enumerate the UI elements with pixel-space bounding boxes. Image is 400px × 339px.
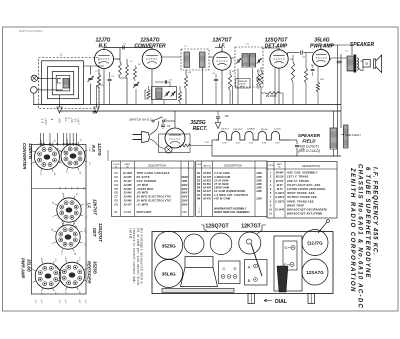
resistor R2 grid leak [134,66,137,80]
wire V1 plate [114,58,121,60]
wire T2 to V3 grid [209,56,213,58]
svg-text:R6: R6 [197,189,201,193]
svg-text:+90: +90 [53,172,55,175]
svg-text:C3: C3 [114,179,118,183]
IF transformer T3 shield box [235,47,263,87]
tuning capacitor C1 ant section [90,66,92,75]
svg-text:RADIO TRIM COIL ASSEMBLY: RADIO TRIM COIL ASSEMBLY [214,211,250,214]
svg-text:400V: 400V [181,192,188,195]
svg-text:OUTPUT TRANS ASS.: OUTPUT TRANS ASS. [287,195,318,199]
svg-text:12SQ7GT: 12SQ7GT [98,223,103,242]
svg-text:6 TUBE SUPERHETERODYNE: 6 TUBE SUPERHETERODYNE [364,167,370,279]
socket diagram V2 12SA7G [35,145,60,170]
svg-text:.05 MFD: .05 MFD [137,191,149,195]
dial cord line [251,244,262,277]
svg-text:200M: 200M [180,176,188,179]
svg-text:22-625: 22-625 [123,176,132,179]
oscillator padder trimmer 2 [171,92,176,97]
svg-text:-8: -8 [50,118,53,121]
svg-text:95-516: 95-516 [276,176,284,179]
svg-text:-1.5: -1.5 [41,118,44,124]
wire table corner leader [107,150,109,161]
svg-text:12J7G: 12J7G [274,129,281,131]
svg-text:S-11971: S-11971 [275,192,285,195]
svg-text:0: 0 [30,282,32,283]
svg-text:22-946: 22-946 [123,196,132,199]
svg-text:+90: +90 [78,290,80,293]
svg-text:250V: 250V [181,203,188,206]
loop antenna L1 shield (dashed) [39,58,100,109]
svg-text:DESCRIPTION: DESCRIPTION [302,164,320,168]
svg-text:AC: AC [64,118,67,122]
svg-text:95-994: 95-994 [276,172,284,175]
svg-text:+100: +100 [83,228,85,232]
svg-text:.00025 MFD: .00025 MFD [137,187,154,191]
svg-text:12K7GT: 12K7GT [241,224,261,230]
svg-text:12SQ7GT: 12SQ7GT [205,224,229,230]
svg-text:PWR AMP: PWR AMP [310,44,335,50]
svg-text:22-417: 22-417 [123,203,132,206]
svg-text:(AND CHAS.): (AND CHAS.) [345,133,361,137]
svg-text:+92: +92 [70,118,73,124]
diode load components [257,74,260,86]
resistor R4 screen [228,74,231,90]
chassis tube 12SQ7GT location [210,233,232,255]
svg-text:22 OHM WIREWOUND: 22 OHM WIREWOUND [213,189,245,193]
svg-text:C2: C2 [114,175,118,179]
svg-text:6.8V: 6.8V [182,212,187,214]
svg-text:46-97: 46-97 [275,184,283,187]
IF transformer T3 secondary [249,54,255,68]
svg-text:1/2W: 1/2W [256,183,262,186]
svg-text:63-447: 63-447 [203,190,211,193]
svg-text:63-561: 63-561 [203,183,211,186]
IF transformer T2 shield box [181,49,209,70]
svg-text:-1.5: -1.5 [83,242,85,245]
svg-text:400V: 400V [181,184,188,187]
svg-text:C8: C8 [114,199,118,203]
svg-text:PILOT LIGHT SOC. ASS.: PILOT LIGHT SOC. ASS. [287,183,321,187]
svg-text:+100: +100 [88,147,90,151]
svg-text:95-517: 95-517 [276,180,284,183]
capacitor C11 line bypass [216,116,220,118]
svg-text:0: 0 [29,163,31,164]
svg-text:1.4 MEG VOL CONTROL: 1.4 MEG VOL CONTROL [214,193,249,197]
wires output transformer [331,57,348,59]
svg-text:+100: +100 [84,201,86,205]
svg-text:FILTER CHOKE (SPEAKER): FILTER CHOKE (SPEAKER) [287,187,326,191]
parts table panel 2 header [196,167,268,169]
parts table panel 3 frame [267,162,337,219]
svg-text:30 MFD ELECTROLYTIC: 30 MFD ELECTROLYTIC [137,199,172,203]
svg-text:cated.: cated. [128,228,132,240]
svg-text:0: 0 [67,118,70,120]
rectifier shield outline [159,134,191,153]
resistor R6 grid [304,68,307,83]
svg-text:+117: +117 [39,172,41,176]
wire V2 plate to T2 [162,56,181,58]
resistor R5 plate load [291,62,294,82]
svg-text:FIELD: FIELD [302,139,316,144]
svg-text:A: A [248,265,251,270]
parts table panel 1 columns [120,161,122,217]
svg-text:+90: +90 [74,252,76,255]
svg-text:S-11972: S-11972 [275,196,285,199]
svg-text:INPUT TRANS. ASS.: INPUT TRANS. ASS. [287,191,315,195]
svg-text:D: D [234,266,237,271]
terminal B [31,87,38,94]
output transformer T5 primary [347,56,354,71]
wire terminal B to bus [33,93,35,104]
filament string resistor humps [216,131,290,140]
coil L2 RF choke [119,62,122,78]
svg-text:CB: CB [365,63,369,65]
svg-text:OSC PADDER: OSC PADDER [137,179,157,183]
svg-text:C6: C6 [114,191,118,195]
svg-text:TWO GANG VARIABLE: TWO GANG VARIABLE [137,171,170,175]
resistor R8 diode load [266,92,280,95]
svg-text:C: C [223,266,226,271]
capacitor cathode bypass V5 [311,68,315,70]
svg-text:CODE: CODE [268,165,274,167]
output transformer T5 secondary [357,58,359,61]
svg-text:ZENITH 6A10 SERIES: ZENITH 6A10 SERIES [19,30,43,33]
capacitor near ground arrow [93,111,96,113]
capacitor C8 coupling [300,50,302,54]
svg-text:35Z5G: 35Z5G [93,261,98,275]
wire osc to bus [163,100,165,105]
parts table panel 2 columns [201,161,203,217]
svg-text:-1.5: -1.5 [88,161,90,164]
svg-text:R5: R5 [197,186,201,190]
ground antenna trimmer [96,103,98,107]
svg-text:-1.5: -1.5 [64,281,66,284]
socket diagram V3 12K7GT [57,198,81,222]
svg-text:0: 0 [54,281,56,282]
svg-text:ADJ.: ADJ. [240,85,245,88]
oscillator transformer T1 box [152,87,177,100]
wire V4 cathode to bus [278,68,280,104]
svg-text:+85: +85 [39,139,41,142]
svg-text:63-470: 63-470 [203,197,211,200]
speaker mounting strip [162,289,234,293]
wire filament string to C9 [290,139,297,141]
svg-text:R9 610M: R9 610M [266,94,277,98]
wire V1 grid cap to converter [104,47,152,49]
speaker top view [185,257,213,268]
svg-text:1/2W: 1/2W [256,197,262,200]
svg-text:49-72: 49-72 [275,188,283,191]
svg-text:R8: R8 [197,196,201,200]
svg-text:47 M OHM: 47 M OHM [213,182,229,186]
coil L3 RF secondary [126,64,129,78]
svg-text:22-958: 22-958 [123,184,132,187]
volume control R7 [259,71,262,87]
svg-text:+90: +90 [54,291,56,294]
capacitor C7 [164,80,166,84]
svg-text:DESCRIPTION: DESCRIPTION [148,164,166,168]
wire bottom rail [212,155,341,157]
tube V3 12K7GT [213,52,231,70]
socket diagram V4 12SQ7GT [56,225,80,249]
svg-text:C7: C7 [114,195,118,199]
svg-text:(12J7G: (12J7G [307,241,323,246]
wire bus rail 2 [60,110,342,112]
svg-text:63-561: 63-561 [203,194,211,197]
svg-text:CODE: CODE [196,164,202,166]
svg-text:1ST I.F. TRANS: 1ST I.F. TRANS [287,175,308,179]
tube V1 12J7G [95,50,114,69]
svg-text:R.F.: R.F. [91,145,96,152]
svg-text:0: 0 [51,243,53,244]
svg-text:6.3V: 6.3V [275,143,280,145]
pilot lamp B1 [165,146,172,153]
chassis leg right [308,294,315,304]
svg-text:12J7G: 12J7G [97,143,102,156]
svg-text:DIAL: DIAL [275,299,288,305]
wire T2 secondary return [202,68,204,105]
loop antenna coupling coil [63,78,69,88]
svg-text:470 M OHM: 470 M OHM [213,196,231,200]
svg-text:400V: 400V [181,188,188,191]
svg-text:PWR.AMP: PWR.AMP [21,258,26,278]
wire V3 cathode to bus [221,70,223,104]
loop antenna winding outer [42,61,84,105]
svg-text:+85: +85 [64,256,66,259]
svg-text:12K7GT: 12K7GT [221,129,230,131]
terminal strip C D [219,261,241,284]
trimmer capacitor T3 right [257,59,262,64]
svg-text:I.F. FREQUENCY 455 KC.: I.F. FREQUENCY 455 KC. [372,167,378,256]
svg-text:-10: -10 [53,139,55,142]
svg-text:100: 100 [225,115,230,118]
svg-text:22-1445: 22-1445 [274,209,284,212]
oscillator transformer T1 winding [156,88,162,99]
resistor R10 cathode V5 [316,82,319,92]
ground line bypass [217,119,219,123]
svg-text:RF ANTS: RF ANTS [137,175,150,179]
B+ vertical wire [337,45,339,156]
svg-text:63-404: 63-404 [203,187,211,190]
svg-text:-10: -10 [79,139,81,142]
svg-text:35L6G: 35L6G [261,129,268,131]
svg-text:CONVERTER: CONVERTER [22,143,27,169]
svg-text:(800 Ω COLD): (800 Ω COLD) [298,149,320,153]
resistor R3 AVC [184,75,187,89]
wire V4 plate coupling [287,53,289,56]
svg-text:PART No: PART No [203,165,211,168]
wire V4 diode return [274,68,276,104]
svg-text:-1.5: -1.5 [84,215,86,218]
chassis outline [152,232,333,294]
oscillator padder trimmer 1 [165,92,170,97]
svg-text:+85: +85 [58,118,61,124]
wire rectifier output [211,140,213,146]
svg-text:C1: C1 [114,171,118,175]
svg-text:6.3V: 6.3V [249,143,254,145]
line cord [150,122,159,135]
svg-text:-10: -10 [54,258,56,261]
socket diagram V5 35L6G [35,263,61,289]
svg-text:12SA7G: 12SA7G [247,128,256,131]
svg-text:22-427: 22-427 [123,180,132,183]
chassis leg left [248,294,255,304]
tube V6 35Z5G rectifier [165,128,185,148]
chassis tube 12SA7G location [302,259,328,285]
svg-text:1/2W: 1/2W [256,172,262,175]
svg-text:-10: -10 [73,118,76,123]
svg-text:CHASSIS No.6A01 & No.6A10 AC-D: CHASSIS No.6A01 & No.6A10 AC-DC [357,164,363,309]
svg-text:+117: +117 [40,291,42,295]
svg-text:0: 0 [52,216,54,217]
svg-text:I.F.: I.F. [87,203,92,209]
output transformer T5 core [354,55,357,73]
svg-text:+117: +117 [64,290,66,294]
svg-text:22 M OHM: 22 M OHM [213,178,229,182]
capacitor C4 cathode bypass [108,78,112,80]
svg-text:G: G [285,246,288,250]
svg-text:WAVEMAGNET ASSEMBLY: WAVEMAGNET ASSEMBLY [214,208,247,211]
chassis tube 35Z5G location [155,231,183,259]
loop antenna core box [56,75,70,91]
svg-text:R2: R2 [197,175,201,179]
oscillator coil L4 [147,90,150,100]
wire V1 cathode to bus [103,69,105,105]
speaker field choke L5 [330,128,337,149]
capacitor C3 osc trim [134,83,139,85]
speaker cone [374,59,376,68]
svg-text:63-561: 63-561 [203,172,211,175]
svg-text:22-946: 22-946 [123,200,132,203]
svg-text:49-500: 49-500 [124,211,132,214]
svg-text:+85: +85 [65,138,67,141]
loop antenna winding middle [47,67,78,99]
svg-text:150V: 150V [182,196,188,199]
svg-text:C5: C5 [114,187,118,191]
svg-text:1/2W: 1/2W [256,176,262,179]
svg-text:RECT.: RECT. [193,126,208,132]
svg-text:RECTIFIER: RECTIFIER [87,261,92,283]
resistor R2 osc grid [179,91,182,102]
svg-text:6.3V: 6.3V [262,143,267,145]
antenna lead from 12J7G [318,222,327,233]
svg-text:6.3V: 6.3V [236,143,241,145]
IF transformer T2 primary [184,52,190,68]
svg-text:OSC COIL ASSEMBLY: OSC COIL ASSEMBLY [287,171,318,175]
socket diagram V6 35Z5G [59,262,85,288]
capacitor C12 on switch lead [162,122,164,124]
chassis tube 12J7G location [302,230,328,256]
svg-text:R3: R3 [197,178,201,182]
parts table panel 3 columns [273,162,275,219]
loop antenna winding inner [52,72,73,95]
speaker voice coil [363,60,370,68]
svg-text:4 MEGOHM: 4 MEGOHM [213,175,231,179]
svg-text:+100: +100 [44,118,47,126]
svg-text:PILOT LIGHT: PILOT LIGHT [137,211,152,214]
svg-text:SWITCH ON S.C.: SWITCH ON S.C. [129,118,153,122]
chassis tube 12K7GT location [239,232,261,254]
svg-text:1/2W: 1/2W [256,187,262,190]
svg-text:R.F.: R.F. [99,44,108,50]
svg-text:DET: DET [92,228,97,237]
svg-text:+117: +117 [65,170,67,174]
svg-text:+117: +117 [60,251,62,255]
svg-text:S-11973: S-11973 [275,200,285,203]
svg-text:30 MFD ELECTROLYTIC: 30 MFD ELECTROLYTIC [137,195,172,199]
parts table panel 2 frame [196,161,268,217]
socket group box [32,145,87,295]
parts table panel 1 frame [112,161,195,217]
loop antenna link [58,78,62,83]
svg-text:150V: 150V [182,200,188,203]
ground loop antenna [59,103,61,107]
resistor R1 cathode [97,74,100,88]
svg-text:12SA7G: 12SA7G [28,143,33,160]
svg-text:C9: C9 [114,202,118,206]
switch S1 [152,120,154,122]
svg-text:2ND I.F. TRANS: 2ND I.F. TRANS [286,179,309,183]
wires T3 secondary returns [237,69,239,105]
svg-text:6.3V: 6.3V [223,143,228,145]
svg-text:PADDER: PADDER [238,80,247,83]
svg-text:DESCRIPTION: DESCRIPTION [224,164,242,168]
svg-text:35L6G: 35L6G [27,259,32,273]
svg-text:+85: +85 [40,257,42,260]
svg-text:R1: R1 [197,171,201,175]
svg-text:SPKR. TRANS ASS.: SPKR. TRANS ASS. [287,199,315,203]
svg-text:250M OHM: 250M OHM [213,186,230,190]
svg-text:BROADCAST ANT.(TRIM): BROADCAST ANT.(TRIM) [287,212,322,216]
dial drive shaft [277,266,288,292]
svg-text:22-904: 22-904 [123,192,132,195]
wire V3 plate to T3 [231,57,234,59]
wire T3 to V4 [262,47,279,49]
svg-text:35Z5G: 35Z5G [162,244,176,249]
svg-text:63-522: 63-522 [203,179,211,182]
wire bus rail 1 (B-) [33,104,341,106]
gang capacitor assembly [274,236,302,291]
trimmer capacitor T3 left [236,59,241,64]
chassis tube 35L6G location [155,260,183,288]
tube V4 12SQ7GT [270,50,288,68]
svg-text:R7: R7 [197,193,201,197]
svg-text:WAVE TRAP: WAVE TRAP [287,203,304,207]
IF transformer T3 primary [242,54,248,68]
svg-text:2.2 M OHM: 2.2 M OHM [213,171,230,175]
svg-text:+85: +85 [61,192,63,195]
svg-text:12K7GT: 12K7GT [93,199,98,215]
svg-text:-10: -10 [78,257,80,260]
tube V5 35L6G [312,49,329,66]
svg-text:1/2W: 1/2W [256,179,262,182]
svg-text:CONVERTER: CONVERTER [134,44,166,50]
svg-text:560 Ω (HOT): 560 Ω (HOT) [299,145,319,149]
svg-text:C4: C4 [114,183,118,187]
socket group box divider [32,188,87,190]
svg-text:SPEAKER: SPEAKER [298,133,321,138]
wire V6 plate to bus [174,111,176,128]
wire V2 cathode to bus [151,69,153,105]
terminal strip A B [245,260,268,286]
svg-text:+85: +85 [60,219,62,222]
svg-text:BROADCAST OSC(PADDER): BROADCAST OSC(PADDER) [287,208,327,212]
svg-text:SPEAKER: SPEAKER [350,42,375,48]
socket diagram V1 12J7G [61,144,85,168]
capacitor C2 grid coupling [122,46,124,50]
chassis tube location small [184,234,204,254]
svg-text:63-478: 63-478 [203,176,211,179]
